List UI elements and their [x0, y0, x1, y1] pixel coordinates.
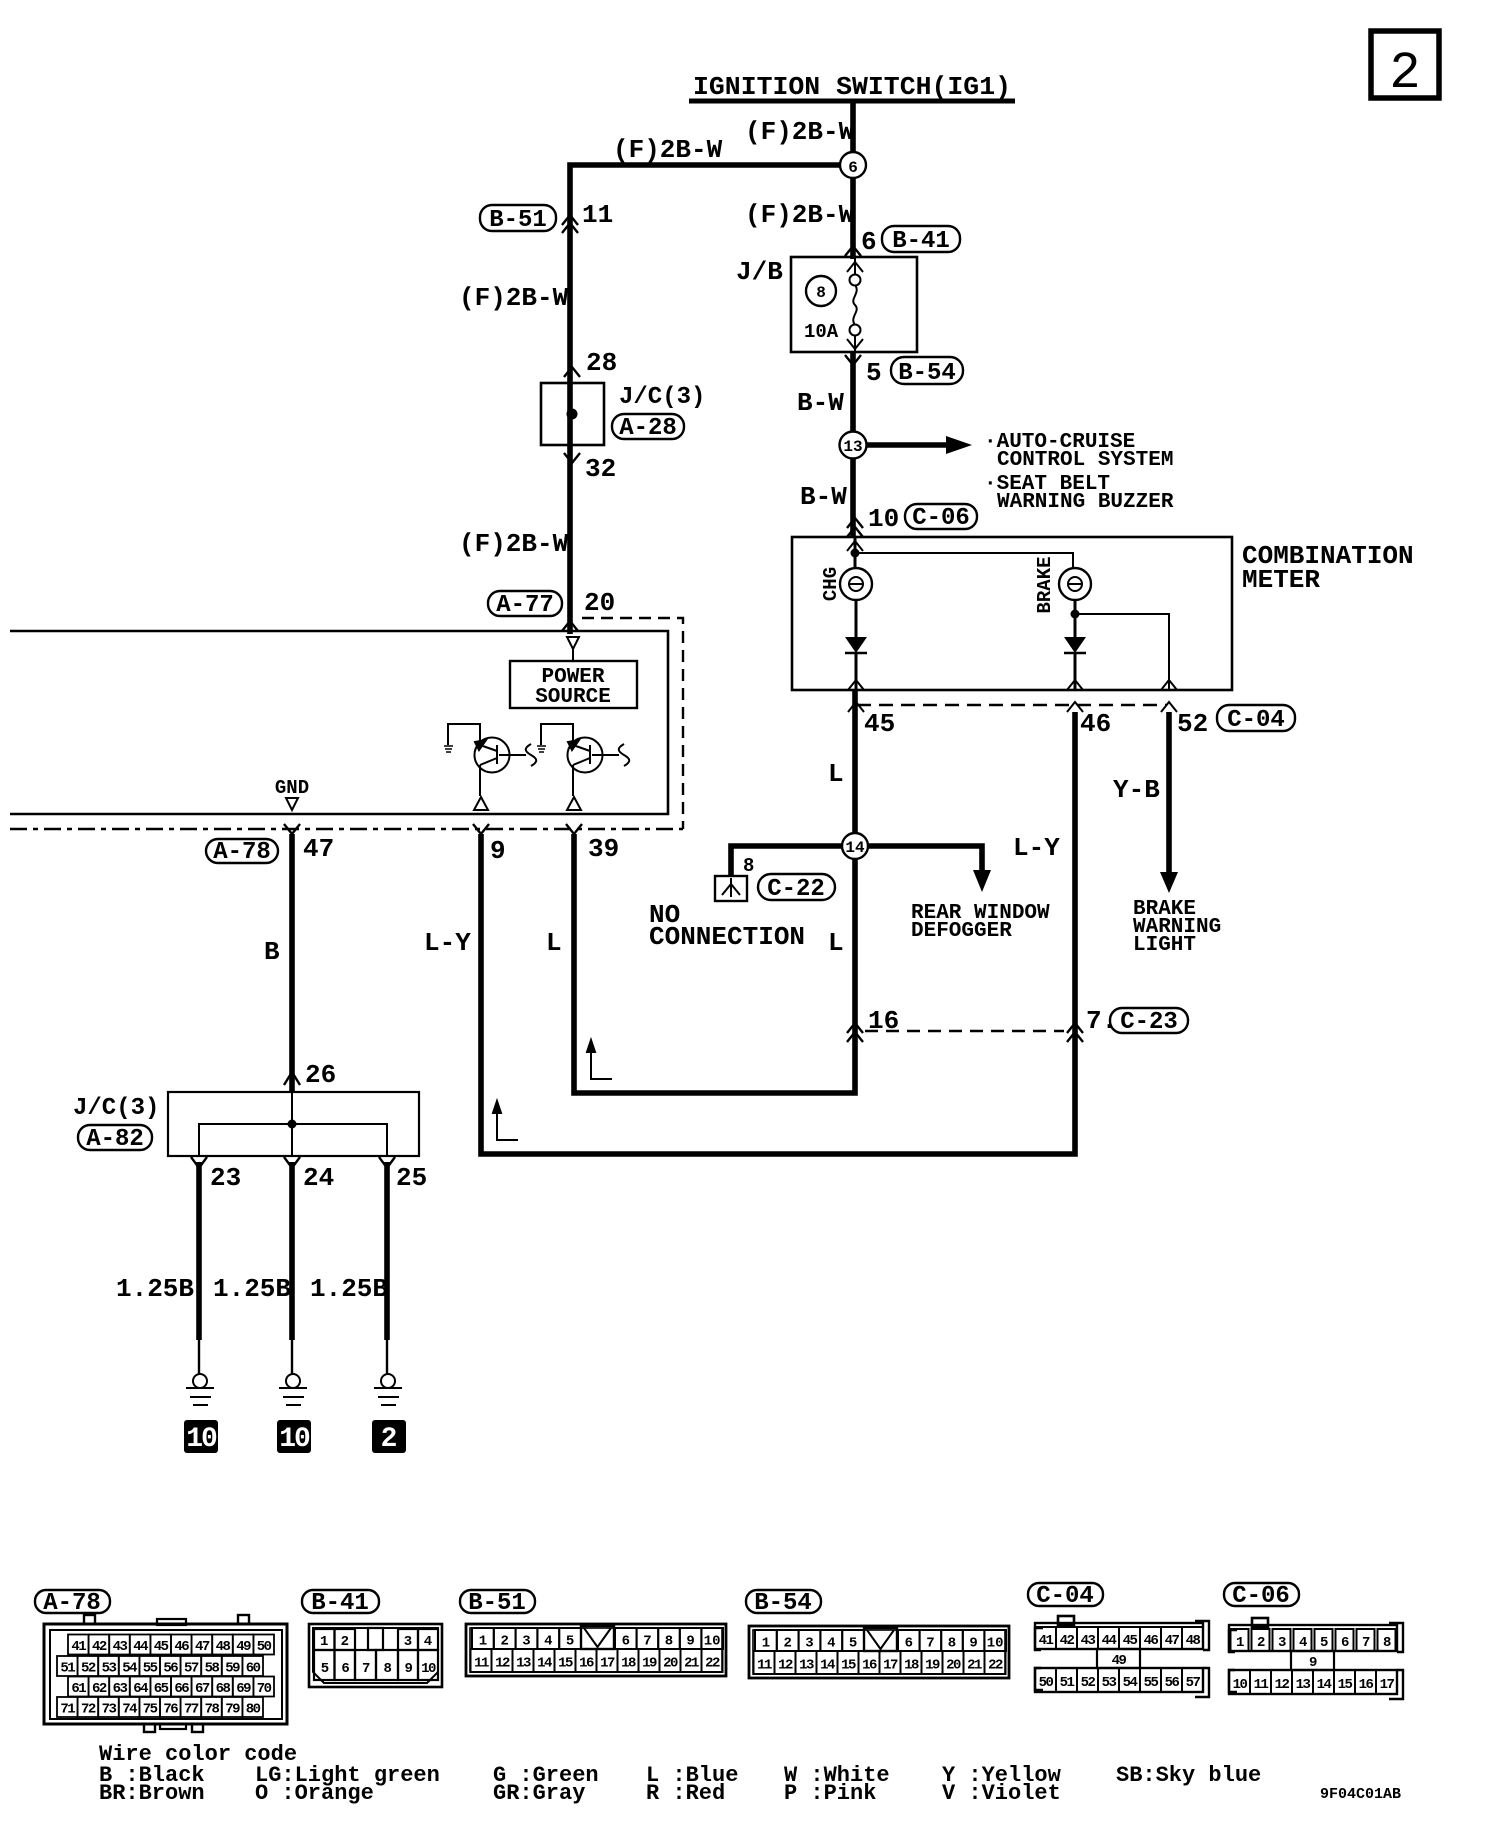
- no connection text: [649, 900, 805, 952]
- svg-text:73: 73: [102, 1702, 117, 1718]
- svg-text:43: 43: [1081, 1633, 1096, 1649]
- wire diode to pin 46: [1074, 653, 1077, 690]
- svg-text:53: 53: [102, 1661, 117, 1677]
- wire CHG to diode: [855, 600, 858, 637]
- wire to brake lamp: [855, 553, 1073, 568]
- svg-text:3: 3: [522, 1634, 530, 1650]
- svg-text:9F04C01AB: 9F04C01AB: [1320, 1786, 1401, 1803]
- svg-text:15: 15: [558, 1656, 573, 1672]
- svg-text:13: 13: [1296, 1677, 1311, 1693]
- svg-text:B-51: B-51: [489, 207, 547, 234]
- svg-text:19: 19: [925, 1658, 940, 1674]
- pin 26 chevron: [284, 1072, 300, 1085]
- svg-text:52: 52: [1081, 1675, 1096, 1691]
- connector B-41 block label: [302, 1590, 379, 1617]
- svg-text:25: 25: [396, 1163, 427, 1193]
- svg-text:32: 32: [585, 454, 616, 484]
- svg-text:72: 72: [81, 1702, 96, 1718]
- svg-text:6: 6: [341, 1661, 349, 1677]
- connector A-78 label: [206, 839, 278, 866]
- svg-text:56: 56: [1165, 1675, 1180, 1691]
- wire node14 to no-connection: [731, 846, 842, 876]
- svg-text:15: 15: [841, 1658, 856, 1674]
- svg-text:14: 14: [845, 839, 865, 857]
- wire to pin 52: [1075, 614, 1169, 690]
- connector C-06 block: [1229, 1618, 1403, 1699]
- svg-text:60: 60: [246, 1661, 261, 1677]
- svg-text:48: 48: [1186, 1633, 1201, 1649]
- connector B-54 block: [749, 1626, 1009, 1678]
- svg-text:2: 2: [1389, 44, 1420, 103]
- svg-text:SOURCE: SOURCE: [535, 686, 611, 709]
- JC3 internal bus: [199, 1092, 387, 1156]
- svg-text:SB:Sky blue: SB:Sky blue: [1116, 1763, 1261, 1788]
- svg-text:80: 80: [246, 1702, 261, 1718]
- svg-text:A-82: A-82: [86, 1126, 144, 1153]
- svg-text:77: 77: [184, 1702, 199, 1718]
- svg-text:A-28: A-28: [619, 415, 677, 442]
- connector A-77 label: [488, 591, 562, 619]
- svg-text:42: 42: [1060, 1633, 1075, 1649]
- junction connector J/C(3) A-82 box: [168, 1092, 419, 1156]
- svg-text:6: 6: [1341, 1635, 1349, 1651]
- svg-text:P :Pink: P :Pink: [784, 1781, 876, 1806]
- svg-text:A-78: A-78: [213, 839, 271, 866]
- svg-text:2: 2: [1257, 1635, 1265, 1651]
- svg-text:7: 7: [362, 1661, 370, 1677]
- svg-text:68: 68: [216, 1681, 231, 1697]
- BRAKE lamp: [1059, 568, 1091, 600]
- svg-text:45: 45: [1123, 1633, 1138, 1649]
- connector B-51 block: [466, 1624, 726, 1676]
- svg-text:10: 10: [987, 1636, 1004, 1652]
- svg-text:64: 64: [133, 1681, 148, 1697]
- svg-text:7.: 7.: [1086, 1006, 1117, 1036]
- wire diode to pin 45: [855, 653, 858, 690]
- svg-text:47: 47: [303, 834, 334, 864]
- svg-text:6: 6: [861, 227, 877, 257]
- svg-text:46: 46: [1144, 1633, 1159, 1649]
- fuse 10A symbol: [850, 257, 861, 352]
- svg-text:5: 5: [566, 1634, 574, 1650]
- connector A-82 label: [78, 1125, 152, 1153]
- svg-text:11: 11: [1254, 1677, 1269, 1693]
- svg-text:C-23: C-23: [1120, 1009, 1178, 1036]
- wire pin45 to node 14: [852, 690, 858, 833]
- pin 23 chevron: [191, 1157, 207, 1168]
- connector C-04 block label: [1028, 1583, 1103, 1610]
- connector C-04 block: [1035, 1616, 1209, 1697]
- svg-text:16: 16: [862, 1658, 877, 1674]
- svg-text:11: 11: [582, 200, 613, 230]
- fuse chevron inside J/B top: [847, 262, 863, 272]
- ground symbol 25: [374, 1374, 402, 1405]
- svg-text:4: 4: [827, 1636, 835, 1652]
- svg-text:5: 5: [866, 358, 882, 388]
- svg-text:54: 54: [122, 1661, 137, 1677]
- svg-text:Y-B: Y-B: [1113, 775, 1160, 805]
- svg-text:LIGHT: LIGHT: [1133, 934, 1196, 957]
- svg-text:26: 26: [305, 1060, 336, 1090]
- ground symbol 24: [279, 1374, 307, 1405]
- svg-text:50: 50: [1039, 1675, 1054, 1691]
- svg-text:METER: METER: [1242, 565, 1320, 595]
- ground symbol 23: [186, 1374, 214, 1405]
- svg-text:62: 62: [92, 1681, 107, 1697]
- svg-text:C-04: C-04: [1227, 707, 1285, 734]
- svg-text:IGNITION SWITCH(IG1): IGNITION SWITCH(IG1): [693, 72, 1011, 102]
- node 13: [840, 432, 867, 459]
- connector C-04 label: [1217, 705, 1295, 734]
- pin 9 chevron: [473, 824, 489, 834]
- svg-text:50: 50: [257, 1639, 272, 1655]
- page number box 2: [1371, 31, 1439, 103]
- auto-cruise seat belt text: [984, 431, 1174, 514]
- diode CHG: [845, 637, 867, 653]
- svg-text:59: 59: [225, 1661, 240, 1677]
- svg-text:13: 13: [516, 1656, 531, 1672]
- continuation arrow symbol upper: [587, 1040, 612, 1079]
- svg-text:(F)2B-W: (F)2B-W: [459, 529, 569, 559]
- pin 47 chevron: [284, 824, 300, 834]
- svg-text:B: B: [264, 937, 280, 967]
- pin 6 chevron: [845, 246, 861, 256]
- svg-text:O :Orange: O :Orange: [255, 1781, 374, 1806]
- GND triangle: [286, 798, 298, 810]
- svg-text:44: 44: [133, 1639, 148, 1655]
- svg-text:J/C(3): J/C(3): [73, 1095, 159, 1122]
- connector B-54 block label: [746, 1590, 821, 1617]
- combination meter box: [792, 537, 1232, 690]
- svg-text:B-54: B-54: [754, 1590, 812, 1617]
- svg-text:4: 4: [544, 1634, 552, 1650]
- svg-text:58: 58: [205, 1661, 220, 1677]
- junction dot in J/C(3): [567, 409, 578, 420]
- svg-text:57: 57: [1186, 1675, 1201, 1691]
- svg-text:8: 8: [1383, 1635, 1391, 1651]
- svg-text:74: 74: [122, 1702, 137, 1718]
- wire pin52 to brake warning light arrow: [1160, 712, 1178, 893]
- svg-text:DEFOGGER: DEFOGGER: [911, 920, 1012, 943]
- svg-text:C-06: C-06: [912, 505, 970, 532]
- svg-text:20: 20: [584, 588, 615, 618]
- pin 25 chevron: [379, 1157, 395, 1168]
- svg-text:71: 71: [60, 1702, 75, 1718]
- svg-text:9: 9: [1309, 1655, 1317, 1671]
- wire node6 to left corner: [570, 165, 840, 634]
- svg-text:C-06: C-06: [1232, 1583, 1290, 1610]
- ground page ref 10 second: [277, 1420, 311, 1455]
- connector A-78 block label: [35, 1590, 110, 1617]
- connector B-51 label: [480, 205, 556, 234]
- svg-text:WARNING BUZZER: WARNING BUZZER: [997, 491, 1174, 514]
- svg-text:CHG: CHG: [820, 567, 842, 601]
- svg-text:17: 17: [883, 1658, 898, 1674]
- svg-text:6: 6: [848, 159, 858, 177]
- svg-text:9: 9: [405, 1661, 413, 1677]
- connector B-41 block: [309, 1624, 442, 1687]
- connector C-23 label: [1110, 1008, 1188, 1036]
- pin 32 chevron: [564, 453, 580, 463]
- svg-text:55: 55: [1144, 1675, 1159, 1691]
- svg-text:16: 16: [579, 1656, 594, 1672]
- svg-text:1.25B: 1.25B: [116, 1274, 194, 1304]
- pin 10 chevrons: [847, 518, 863, 537]
- wire node 6 down to J/B: [850, 178, 856, 259]
- svg-text:46: 46: [174, 1639, 189, 1655]
- svg-text:J/B: J/B: [736, 257, 783, 287]
- svg-text:1.25B: 1.25B: [213, 1274, 291, 1304]
- power source box: [510, 661, 637, 708]
- svg-text:5: 5: [1320, 1635, 1328, 1651]
- svg-text:9: 9: [490, 836, 506, 866]
- ground page ref 10 first: [184, 1420, 218, 1455]
- connector B-51 block label: [460, 1590, 535, 1617]
- svg-text:CONNECTION: CONNECTION: [649, 922, 805, 952]
- svg-text:2: 2: [783, 1636, 791, 1652]
- svg-text:49: 49: [236, 1639, 251, 1655]
- combination meter label: [1242, 541, 1414, 595]
- junction dot brake: [1071, 610, 1080, 619]
- svg-text:8: 8: [948, 1636, 956, 1652]
- svg-text:17: 17: [1380, 1677, 1395, 1693]
- pin 16 chevrons: [847, 1023, 863, 1042]
- meter exit chevrons pin52: [1161, 680, 1177, 712]
- svg-text:L: L: [828, 928, 844, 958]
- wire node14 down through pin16 to pin39: [574, 834, 855, 1093]
- svg-text:(F)2B-W: (F)2B-W: [613, 135, 723, 165]
- meter entry chevron: [847, 541, 863, 551]
- svg-text:66: 66: [174, 1681, 189, 1697]
- svg-text:43: 43: [113, 1639, 128, 1655]
- connector A-28 label: [612, 414, 684, 442]
- svg-text:J/C(3): J/C(3): [619, 384, 705, 411]
- wire pin46 down to pin9: [481, 712, 1075, 1154]
- fuse chevron inside J/B bottom: [847, 339, 863, 349]
- svg-text:C-04: C-04: [1036, 1583, 1094, 1610]
- ECU dashed connector outline bottom: [10, 828, 683, 830]
- svg-text:1: 1: [1236, 1635, 1244, 1651]
- svg-text:C-22: C-22: [767, 876, 825, 903]
- svg-text:52: 52: [1177, 709, 1208, 739]
- svg-text:65: 65: [154, 1681, 169, 1697]
- svg-text:9: 9: [686, 1634, 694, 1650]
- svg-text:14: 14: [1317, 1677, 1332, 1693]
- connector B-51 pin 11 chevrons: [562, 215, 578, 233]
- svg-text:17: 17: [600, 1656, 615, 1672]
- connector C-04 dashed line: [857, 704, 1167, 707]
- svg-text:69: 69: [236, 1681, 251, 1697]
- connector B-54 label: [891, 357, 963, 387]
- CHG lamp: [840, 568, 872, 600]
- pin 28 chevron: [564, 367, 580, 377]
- JC3 junction dot: [288, 1120, 297, 1129]
- svg-text:15: 15: [1338, 1677, 1353, 1693]
- svg-text:53: 53: [1102, 1675, 1117, 1691]
- svg-text:46: 46: [1080, 709, 1111, 739]
- pin 5 chevron: [845, 355, 861, 365]
- connector B-41 label: [882, 226, 960, 255]
- arrow to auto-cruise: [867, 436, 972, 454]
- wire pin47 down to JC3 A-82: [289, 834, 295, 1092]
- svg-text:A-77: A-77: [496, 592, 554, 619]
- svg-text:10: 10: [421, 1661, 436, 1677]
- rear window defogger text: [911, 902, 1050, 943]
- ground page ref 2: [372, 1420, 406, 1455]
- svg-text:41: 41: [1039, 1633, 1054, 1649]
- svg-text:18: 18: [621, 1656, 636, 1672]
- connector A-78 block: [44, 1615, 287, 1732]
- svg-text:L: L: [546, 928, 562, 958]
- svg-text:1: 1: [762, 1636, 770, 1652]
- svg-text:52: 52: [81, 1661, 96, 1677]
- ground wire 24: [289, 1162, 295, 1374]
- connector C-22 label: [758, 874, 835, 903]
- svg-text:4: 4: [424, 1634, 432, 1650]
- svg-text:51: 51: [60, 1661, 75, 1677]
- svg-text:B-54: B-54: [898, 360, 956, 387]
- svg-text:16: 16: [1359, 1677, 1374, 1693]
- svg-text:2: 2: [381, 1424, 398, 1455]
- svg-text:5: 5: [321, 1661, 329, 1677]
- svg-text:(F)2B-W: (F)2B-W: [459, 283, 569, 313]
- svg-text:67: 67: [195, 1681, 210, 1697]
- svg-text:7: 7: [1362, 1635, 1370, 1651]
- svg-text:21: 21: [967, 1658, 982, 1674]
- svg-text:BRAKE: BRAKE: [1034, 556, 1056, 613]
- svg-text:21: 21: [684, 1656, 699, 1672]
- svg-text:45: 45: [154, 1639, 169, 1655]
- svg-text:BR:Brown: BR:Brown: [99, 1781, 205, 1806]
- junction block J/B box: [791, 257, 917, 352]
- svg-text:48: 48: [216, 1639, 231, 1655]
- svg-text:13: 13: [843, 438, 862, 456]
- svg-text:19: 19: [642, 1656, 657, 1672]
- ignition switch bus line: [689, 99, 1015, 104]
- svg-text:L-Y: L-Y: [424, 928, 471, 958]
- svg-text:10: 10: [868, 504, 899, 534]
- ground wire 23: [196, 1162, 202, 1374]
- svg-text:9: 9: [969, 1636, 977, 1652]
- svg-text:10: 10: [704, 1634, 721, 1650]
- svg-text:3: 3: [404, 1634, 412, 1650]
- pin 20 chevron: [562, 621, 578, 631]
- connector C-06 label: [905, 504, 977, 532]
- svg-text:B-41: B-41: [311, 1590, 369, 1617]
- svg-text:1.25B: 1.25B: [310, 1274, 388, 1304]
- pin 7 chevrons: [1067, 1023, 1083, 1042]
- svg-text:20: 20: [946, 1658, 961, 1674]
- svg-text:39: 39: [588, 834, 619, 864]
- transistor Q2: [537, 724, 629, 810]
- svg-text:4: 4: [1299, 1635, 1307, 1651]
- connector C-23 dashed line: [865, 1030, 1064, 1032]
- svg-text:10: 10: [1233, 1677, 1248, 1693]
- pin 24 chevron: [284, 1157, 300, 1168]
- wire BRAKE to diode: [1074, 600, 1077, 637]
- svg-text:55: 55: [143, 1661, 158, 1677]
- wire from ignition switch to node 6: [850, 101, 856, 165]
- svg-text:7: 7: [926, 1636, 934, 1652]
- svg-text:L: L: [828, 759, 844, 789]
- svg-text:24: 24: [303, 1163, 334, 1193]
- svg-text:45: 45: [864, 709, 895, 739]
- meter exit chevrons pin45: [848, 680, 864, 712]
- svg-text:B-41: B-41: [892, 228, 950, 255]
- svg-text:6: 6: [905, 1636, 913, 1652]
- wire J/B to node 13: [850, 352, 856, 537]
- svg-text:8: 8: [743, 855, 754, 877]
- svg-text:1: 1: [479, 1634, 487, 1650]
- svg-text:14: 14: [537, 1656, 552, 1672]
- svg-text:79: 79: [225, 1702, 240, 1718]
- svg-text:22: 22: [988, 1658, 1003, 1674]
- svg-text:8: 8: [816, 284, 826, 302]
- svg-text:61: 61: [71, 1681, 86, 1697]
- wire node14 to rear window defogger arrow: [868, 846, 991, 892]
- svg-text:B-51: B-51: [468, 1590, 526, 1617]
- junction dot meter: [851, 549, 860, 558]
- svg-text:10: 10: [279, 1424, 310, 1455]
- svg-text:78: 78: [205, 1702, 220, 1718]
- svg-text:42: 42: [92, 1639, 107, 1655]
- wire into meter: [854, 537, 857, 568]
- svg-text:10: 10: [186, 1424, 217, 1455]
- svg-text:6: 6: [622, 1634, 630, 1650]
- svg-text:23: 23: [210, 1163, 241, 1193]
- svg-text:11: 11: [757, 1658, 772, 1674]
- svg-text:12: 12: [495, 1656, 510, 1672]
- svg-text:12: 12: [778, 1658, 793, 1674]
- pin 39 chevron: [566, 824, 582, 834]
- svg-text:56: 56: [163, 1661, 178, 1677]
- svg-text:3: 3: [805, 1636, 813, 1652]
- svg-text:70: 70: [257, 1681, 272, 1697]
- svg-text:47: 47: [1165, 1633, 1180, 1649]
- node 14: [842, 833, 868, 859]
- svg-text:7: 7: [643, 1634, 651, 1650]
- svg-text:GR:Gray: GR:Gray: [493, 1781, 585, 1806]
- svg-text:8: 8: [384, 1661, 392, 1677]
- legend row 2: [99, 1781, 1061, 1806]
- svg-text:V :Violet: V :Violet: [942, 1781, 1061, 1806]
- svg-text:12: 12: [1275, 1677, 1290, 1693]
- svg-text:41: 41: [71, 1639, 86, 1655]
- svg-text:11: 11: [474, 1656, 489, 1672]
- svg-text:54: 54: [1123, 1675, 1138, 1691]
- svg-text:51: 51: [1060, 1675, 1075, 1691]
- svg-text:47: 47: [195, 1639, 210, 1655]
- svg-text:5: 5: [849, 1636, 857, 1652]
- svg-text:18: 18: [904, 1658, 919, 1674]
- svg-text:22: 22: [705, 1656, 720, 1672]
- svg-text:44: 44: [1102, 1633, 1117, 1649]
- svg-text:2: 2: [500, 1634, 508, 1650]
- legend row 1: [99, 1763, 1261, 1788]
- svg-text:20: 20: [663, 1656, 678, 1672]
- svg-text:(F)2B-W: (F)2B-W: [745, 200, 855, 230]
- svg-text:L-Y: L-Y: [1013, 833, 1060, 863]
- no connection terminal C-22: [715, 876, 747, 901]
- svg-text:A-78: A-78: [43, 1590, 101, 1617]
- svg-text:14: 14: [820, 1658, 835, 1674]
- fuse number circle 8: [806, 276, 836, 306]
- svg-text:28: 28: [586, 348, 617, 378]
- connector C-06 block label: [1224, 1583, 1299, 1610]
- power source entry triangle: [567, 637, 579, 649]
- svg-text:CONTROL SYSTEM: CONTROL SYSTEM: [997, 449, 1173, 472]
- diode BRAKE: [1064, 637, 1086, 653]
